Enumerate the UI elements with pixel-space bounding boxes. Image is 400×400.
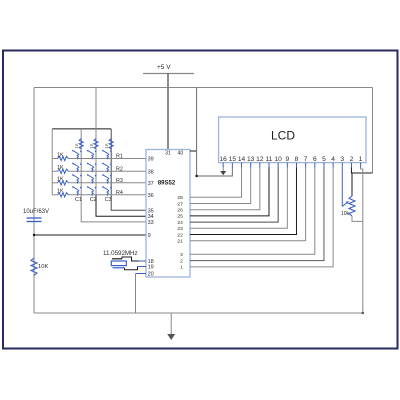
wire ground bottom rail [34, 312, 363, 314]
svg-text:1K: 1K [89, 143, 94, 148]
wire LCD pin 1 to ground rail [361, 168, 363, 314]
wire row R4 with resistor 1K to chip [52, 194, 57, 196]
svg-text:2: 2 [350, 156, 354, 163]
wire LCD pin 13 to chip [190, 168, 251, 204]
wire LCD pin 6 to chip [190, 168, 315, 255]
switch key row1 col3 [102, 150, 112, 159]
wire column C1 to chip pin 33 [81, 129, 146, 222]
svg-text:19: 19 [148, 265, 154, 271]
svg-text:21: 21 [177, 239, 183, 245]
svg-text:33: 33 [148, 220, 154, 226]
wire LCD pin 5 to chip [190, 168, 324, 261]
switch key row4 col2 [87, 186, 97, 196]
wire LCD pin 7 to chip [190, 168, 306, 241]
LCD pin stubs [222, 163, 224, 168]
keypad box outline [52, 128, 111, 130]
wire LCD pin 9 to chip [190, 168, 287, 229]
switch key row2 col3 [102, 163, 112, 173]
svg-text:28: 28 [177, 195, 183, 201]
svg-text:36: 36 [148, 193, 154, 199]
wire LCD pin 11 to chip [190, 168, 269, 216]
wire LCD pin 2 junction to pot top [351, 173, 353, 196]
svg-text:10: 10 [274, 156, 282, 163]
wire RST node to pin 9 [34, 234, 146, 236]
svg-text:16: 16 [220, 156, 228, 163]
wire row R2 with resistor 1K to chip [52, 170, 57, 172]
svg-text:1K: 1K [104, 143, 109, 148]
wire LCD pin 8 to chip [190, 168, 296, 235]
svg-text:38: 38 [148, 169, 154, 175]
ground arrow (main) [170, 313, 172, 335]
svg-text:+5 V: +5 V [157, 64, 171, 71]
wire +5V top rail [34, 87, 373, 89]
svg-text:27: 27 [177, 201, 183, 207]
resistor 10K (reset pulldown) [31, 258, 37, 276]
svg-text:R2: R2 [116, 167, 123, 173]
wire column C3 to chip pin 35 [111, 129, 146, 210]
wire pin 20 to ground [136, 273, 147, 275]
svg-text:6: 6 [313, 156, 317, 163]
svg-text:3: 3 [340, 156, 344, 163]
wire LCD pin 14 to chip [190, 168, 242, 198]
wire LCD pin 4 to chip [190, 168, 333, 267]
wire row R1 with resistor 1K to chip [52, 158, 57, 160]
svg-text:R4: R4 [116, 190, 123, 196]
svg-text:26: 26 [177, 208, 183, 214]
svg-text:R3: R3 [116, 178, 123, 184]
potentiometer 10k (contrast) [349, 196, 355, 216]
border frame (image border) [3, 51, 398, 349]
svg-text:C3: C3 [105, 197, 112, 203]
svg-text:1K: 1K [74, 143, 79, 148]
microcontroller U1 89S52 box [146, 150, 190, 278]
svg-text:1K: 1K [57, 177, 64, 183]
svg-text:3: 3 [180, 252, 183, 258]
wire +5V right rail to LCD pin 2 [372, 88, 374, 174]
svg-text:40: 40 [178, 151, 184, 157]
switch key row3 col2 [87, 174, 97, 184]
switch key row1 col1 [72, 150, 82, 159]
wire +5V to pin 40 and LCD pin 15 [190, 150, 197, 152]
wire LCD pin 10 to chip [190, 168, 278, 223]
wire row R3 with resistor 1K to chip [52, 182, 57, 184]
svg-text:14: 14 [238, 156, 246, 163]
resistor 1K column 1 (vertical) [79, 139, 83, 150]
svg-text:24: 24 [177, 220, 183, 226]
svg-text:10K: 10K [38, 264, 48, 270]
svg-text:22: 22 [177, 232, 183, 238]
wire LCD pin 12 to chip [190, 168, 260, 210]
svg-text:1K: 1K [57, 165, 64, 171]
ground arrow at LCD pin 16 [222, 168, 224, 172]
wire column C2 to chip pin 34 [95, 129, 97, 195]
svg-text:39: 39 [148, 157, 154, 163]
svg-text:23: 23 [177, 226, 183, 232]
svg-text:20: 20 [148, 272, 154, 278]
wire pot bottom to ground [352, 216, 363, 221]
svg-text:31: 31 [165, 151, 171, 157]
svg-text:10k: 10k [341, 211, 350, 217]
svg-text:1: 1 [359, 156, 363, 163]
svg-text:13: 13 [247, 156, 255, 163]
wire left rail [33, 88, 35, 314]
svg-text:8: 8 [295, 156, 299, 163]
svg-text:9: 9 [285, 156, 289, 163]
svg-text:LCD: LCD [271, 129, 295, 143]
svg-text:C2: C2 [90, 197, 97, 203]
svg-text:R1: R1 [116, 154, 123, 160]
switch key row3 col3 [102, 174, 112, 184]
svg-text:1K: 1K [57, 152, 64, 158]
svg-text:9: 9 [148, 233, 151, 239]
svg-text:C1: C1 [75, 197, 82, 203]
svg-text:15: 15 [229, 156, 237, 163]
LCD display box [219, 117, 366, 163]
svg-text:7: 7 [304, 156, 308, 163]
switch key row3 col1 [72, 174, 82, 184]
switch key row1 col2 [87, 150, 97, 159]
svg-text:5: 5 [322, 156, 326, 163]
svg-text:1K: 1K [57, 189, 64, 195]
wire crystal to pin 18 [122, 257, 139, 261]
svg-text:4: 4 [331, 156, 335, 163]
resistor 1K column 3 (vertical) [109, 139, 113, 150]
resistor 1K column 2 (vertical) [94, 139, 98, 150]
svg-text:25: 25 [177, 214, 183, 220]
switch key row2 col2 [87, 163, 97, 173]
switch key row4 col1 [72, 186, 82, 196]
switch key row2 col1 [72, 163, 82, 173]
svg-text:1: 1 [180, 265, 183, 271]
wire crystal to pin 19 [125, 267, 138, 270]
svg-text:2: 2 [180, 258, 183, 264]
svg-text:12: 12 [256, 156, 264, 163]
svg-text:10uF/63V: 10uF/63V [23, 209, 49, 215]
svg-text:89S52: 89S52 [158, 181, 176, 187]
switch key row4 col3 [102, 186, 112, 196]
wire column C2 feed from +5V rail [95, 88, 97, 129]
svg-text:11.0592MHz: 11.0592MHz [103, 250, 138, 257]
svg-text:37: 37 [148, 181, 154, 187]
svg-text:11: 11 [266, 156, 273, 163]
